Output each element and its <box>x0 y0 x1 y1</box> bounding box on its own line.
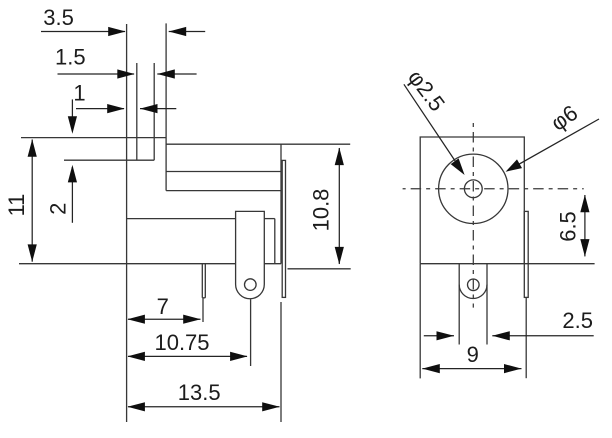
wire: dim 10.75 line <box>128 355 247 357</box>
wire: front view bottom tab right side x=487 <box>486 264 488 345</box>
node: front view horizontal centerline (dashed) <box>403 188 584 190</box>
wire: side view pin outer-right vertical x=166.1 <box>165 23 167 190</box>
node: arrowhead dim 7 left (points left) <box>127 315 144 324</box>
wire: dim 2 upper arrow line <box>71 99 73 131</box>
wire: side view pin inner-left vertical x=136.8 <box>136 63 138 160</box>
wire: side view inner shoulder y=160.2 <box>64 159 154 161</box>
svg-text:13.5: 13.5 <box>178 380 221 405</box>
node: arrowhead dim 7 right (points right) <box>183 315 201 324</box>
node: arrowhead dim 11 top (points up) <box>28 139 37 157</box>
wire: side view bottom pin left x=202.3 <box>201 264 203 298</box>
svg-text:φ2.5: φ2.5 <box>403 65 450 116</box>
wire: dim 6.5 vertical line <box>584 195 586 256</box>
wire: side view body bottom right segment y=263.7 <box>264 263 281 265</box>
wire: side view barrel top y=144.2 with extension <box>166 143 350 145</box>
wire: leader line dia 6 <box>508 119 599 170</box>
wire: side view body top face y=137.6 <box>21 137 166 139</box>
node: arrowhead dim 1 left (points right) <box>107 104 125 113</box>
wire: dim 11 vertical line <box>31 140 33 262</box>
node: arrowhead dim 1 right (points left) <box>140 104 158 113</box>
wire: front view barrel circle dia 6 <box>439 154 508 223</box>
svg-text:1: 1 <box>73 81 85 106</box>
node: arrowhead dim 2 lower (points up) <box>68 165 77 183</box>
wire: side view pin inner-right vertical x=154.2 <box>153 63 155 160</box>
wire: extension line from flange for dim 9 x=526.2 <box>525 297 527 378</box>
svg-text:φ6: φ6 <box>546 100 582 136</box>
node: arrowhead dim 10.75 right (points right) <box>230 352 248 361</box>
node: arrowhead leader dia 6 (points down-left) <box>506 159 522 171</box>
wire: dim 2.5 right line <box>492 335 593 337</box>
node: arrowhead dim 10.8 bottom (points down) <box>335 247 344 265</box>
wire: dim 9 line <box>422 368 521 370</box>
wire: dim 3.5 left line <box>41 31 125 33</box>
svg-text:2.5: 2.5 <box>562 308 593 333</box>
wire: dim 3.5 right line <box>169 31 206 33</box>
wire: side view solder lug with rounded bottom <box>236 211 265 298</box>
wire: front view square body <box>420 137 524 264</box>
svg-text:10.75: 10.75 <box>154 330 209 355</box>
wire: dim 1 left line <box>76 108 124 110</box>
node: arrowhead dim 9 right (points right) <box>504 364 522 373</box>
wire: dim 7 line <box>128 318 201 320</box>
node: arrowhead dim 10.75 left (points left) <box>127 352 144 361</box>
wire: dim 2.5 left line <box>424 335 454 337</box>
svg-text:6.5: 6.5 <box>556 211 581 242</box>
wire: side view bottom pin cap <box>202 297 205 299</box>
wire: side view bottom pin right x=205.3 <box>204 264 206 298</box>
wire: side view lower step top right segment y=218.6 <box>264 218 275 220</box>
wire: dim 13.5 line <box>128 406 280 408</box>
node: arrowhead dim 2.5 left (points right) <box>437 331 455 340</box>
wire: side view lower step right vertical x=274.8 <box>274 219 276 264</box>
wire: front view bottom tab left side x=459.2 <box>458 264 460 345</box>
wire: side view pin outer-left vertical / body left edge x=126.6 <box>126 24 128 422</box>
wire: dim 2 lower arrow line <box>71 167 73 223</box>
node: front view vertical centerline (dashed) <box>472 121 474 308</box>
node: arrowhead dim 6.5 bottom (points down) <box>580 239 589 257</box>
svg-text:10.8: 10.8 <box>309 189 334 232</box>
wire: side view barrel right edge x=281 <box>280 144 282 264</box>
wire: extension line right for dim 13.5 x=281 <box>280 302 282 422</box>
node: arrowhead dim 1.5 right (points left) <box>157 69 175 78</box>
wire: side view body bottom left segment y=263.7 <box>19 263 236 265</box>
wire: dim 1.5 left line <box>58 73 135 75</box>
wire: extension line left for dim 9 x=420.2 <box>419 264 421 379</box>
wire: front view right flange <box>524 211 528 297</box>
svg-text:2: 2 <box>46 203 71 215</box>
wire: dim 1.5 right line <box>157 73 196 75</box>
svg-text:9: 9 <box>467 342 479 367</box>
wire: front view center pin circle dia 2.5 <box>464 180 482 198</box>
wire: extension line bottom for dim 10.8 y=268.8 <box>288 268 351 270</box>
svg-text:3.5: 3.5 <box>43 5 74 30</box>
node: arrowhead dim 6.5 top (points up) <box>580 195 589 213</box>
wire: leader line dia 2.5 <box>404 84 462 170</box>
svg-text:1.5: 1.5 <box>55 45 86 70</box>
wire: side view lug hole <box>245 279 257 291</box>
node: arrowhead dim 2.5 right (points left) <box>492 331 510 340</box>
wire: side view barrel bottom y=190.6 <box>166 190 281 192</box>
wire: front view bottom tab arc <box>459 285 487 299</box>
node: arrowhead dim 13.5 right (points right) <box>262 402 280 411</box>
node: arrowhead dim 1.5 left (points right) <box>117 69 135 78</box>
wire: front view bottom edge extended y=263.7 <box>420 263 594 265</box>
wire: extension line from lug center for dim 10.75 <box>250 299 252 366</box>
wire: side view barrel middle y=171.5 <box>166 171 281 173</box>
wire: front view tab hole <box>468 279 480 291</box>
node: arrowhead dim 2 upper (points down) <box>68 116 77 134</box>
wire: side view lower step top left segment y=218.6 <box>127 218 236 220</box>
node: arrowhead dim 3.5 right (points left) <box>169 27 187 36</box>
node: arrowhead dim 3.5 left (points right) <box>108 27 126 36</box>
node: arrowhead dim 11 bottom (points down) <box>28 244 37 262</box>
node: arrowhead dim 13.5 left (points left) <box>127 402 144 411</box>
svg-text:7: 7 <box>157 294 169 319</box>
wire: dim 10.8 vertical line <box>338 148 340 264</box>
wire: dim 1 right line <box>140 108 176 110</box>
node: arrowhead dim 10.8 top (points up) <box>335 148 344 166</box>
wire: extension line from pin for dim 7 <box>202 298 204 322</box>
svg-text:11: 11 <box>4 194 29 217</box>
node: arrowhead dim 9 left (points left) <box>422 364 440 373</box>
node: arrowhead leader dia 2.5 (points down-right) <box>451 158 465 175</box>
wire: side view rear flange plate <box>282 160 285 297</box>
